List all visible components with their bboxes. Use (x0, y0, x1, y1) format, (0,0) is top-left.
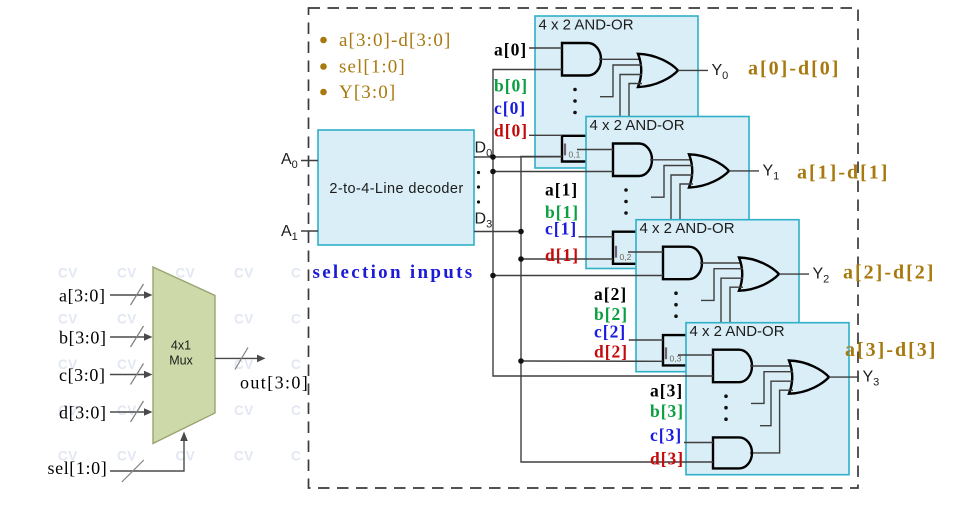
bullet item a[3:0]-d[3:0] (320, 30, 451, 51)
wire a[2] into B3 top AND (628, 251, 663, 253)
junction node D3-B3 (518, 358, 524, 364)
label D3 (475, 211, 493, 231)
svg-text:b[0]: b[0] (494, 76, 528, 96)
junction node D0-B2 (490, 169, 496, 175)
label a[0] (494, 40, 527, 60)
label c[3:0] (59, 365, 106, 385)
label d[0] (494, 121, 528, 141)
wire A1 input (301, 230, 318, 232)
label Y2 (813, 266, 830, 286)
svg-text:C: C (291, 357, 301, 372)
wire OR input stub 2 of B1 (600, 65, 642, 97)
wire Y1 output (729, 170, 759, 172)
svg-text:Y3: Y3 (863, 369, 880, 389)
AND gate top of B2 (613, 144, 652, 177)
wire a[3:0] bus into mux (110, 284, 153, 305)
AND-OR block B2 box (586, 117, 749, 269)
wire b[3:0] bus into mux (110, 326, 153, 347)
label a[3:0] (59, 286, 106, 306)
gate label I0,2 (616, 246, 632, 262)
wire d[0] into B1 bottom AND (529, 134, 562, 136)
svg-text:Y2: Y2 (813, 266, 830, 286)
AND-OR block B1 box (535, 16, 698, 168)
svg-text:a[1]-d[1]: a[1]-d[1] (797, 162, 889, 184)
svg-text:CV: CV (234, 311, 254, 326)
wire bottom AND output of B3 (hidden) (700, 349, 716, 351)
label Y0 (712, 62, 729, 82)
svg-text:0,1: 0,1 (569, 150, 581, 160)
svg-text:CV: CV (58, 266, 78, 281)
OR gate of B2 (689, 154, 729, 187)
OR gate of B4 (789, 361, 829, 394)
svg-text:4 x 2 AND-OR: 4 x 2 AND-OR (539, 17, 634, 34)
svg-text:0,2: 0,2 (620, 252, 632, 262)
label b[0] (494, 76, 528, 96)
svg-text:CV: CV (234, 403, 254, 418)
wire bottom AND output of B2 (hidden) (650, 247, 666, 249)
svg-text:c[0]: c[0] (494, 98, 526, 118)
label a[0]-d[0] (748, 58, 840, 80)
svg-text:CV: CV (234, 357, 254, 372)
gate label I0,3 (666, 347, 682, 363)
svg-text:a[3]: a[3] (650, 381, 683, 401)
svg-text:selection inputs: selection inputs (313, 262, 475, 283)
svg-text:CV: CV (234, 266, 254, 281)
wire Y2 output (779, 273, 809, 275)
hidden-gates ellipsis of B3 (674, 291, 678, 318)
svg-text:sel[1:0]: sel[1:0] (339, 57, 406, 78)
wire d[3:0] bus into mux (110, 401, 153, 422)
AND-OR block B3 box (636, 220, 799, 372)
bullet item Y[3:0] (320, 82, 396, 103)
label a[3] (650, 381, 683, 401)
label A0 (281, 151, 298, 171)
svg-text:CV: CV (58, 311, 78, 326)
label a[2]-d[2] (843, 262, 935, 284)
wire D3 from decoder (474, 231, 521, 233)
junction node D3-B1 (518, 229, 524, 235)
hidden-gates ellipsis of B2 (624, 188, 628, 215)
svg-text:out[3:0]: out[3:0] (240, 373, 309, 393)
wire OR input stub 4 of B2 (680, 184, 693, 222)
svg-text:CV: CV (117, 266, 137, 281)
label b[2] (594, 304, 628, 324)
wire bottom AND output to OR input 4 of B4 (750, 390, 793, 453)
label D0 (475, 140, 493, 160)
bullet item sel[1:0] (320, 57, 406, 78)
junction node D0-B1 (490, 154, 496, 160)
svg-text:4x1: 4x1 (171, 339, 191, 353)
wire top AND output to OR in B3 (700, 262, 742, 264)
svg-text:C: C (291, 266, 301, 281)
svg-text:a[3]-d[3]: a[3]-d[3] (845, 339, 937, 361)
label c[3] (650, 425, 682, 445)
label c[2] (594, 322, 626, 342)
svg-text:CV: CV (234, 449, 254, 464)
svg-text:d[3]: d[3] (650, 449, 684, 469)
label d[1] (545, 245, 579, 265)
gate label I0,1 (565, 144, 581, 160)
svg-text:a[0]: a[0] (494, 40, 527, 60)
wire OR input stub 3 of B3 (721, 278, 743, 325)
wire a[1] into B2 top AND (577, 149, 613, 151)
decoder U1: 2-to-4-Line decoder (318, 130, 474, 245)
svg-text:d[3:0]: d[3:0] (59, 403, 107, 423)
wire c[1] into B2 bottom AND (579, 236, 614, 238)
wire OR input stub 4 of B3 (730, 287, 743, 325)
label selection inputs (313, 262, 475, 283)
svg-text:CV: CV (117, 449, 137, 464)
label a[1]-d[1] (797, 162, 889, 184)
label Y3 (863, 369, 880, 389)
label A1 (281, 223, 298, 243)
wire OR input stub 3 of B2 (671, 175, 693, 222)
label b[3] (650, 401, 684, 421)
OR gate of B3 (739, 258, 779, 291)
label a[3]-d[3] (845, 339, 937, 361)
svg-text:C: C (291, 311, 301, 326)
decoder output ellipsis dots (477, 171, 480, 204)
watermark pattern (58, 266, 301, 464)
AND gate top of B1 (562, 43, 601, 76)
svg-text:CV: CV (176, 449, 196, 464)
svg-text:a[3:0]-d[3:0]: a[3:0]-d[3:0] (339, 30, 451, 51)
svg-text:A1: A1 (281, 223, 298, 243)
wire OR input stub 2 of B4 (751, 372, 793, 404)
svg-text:2-to-4-Line decoder: 2-to-4-Line decoder (329, 181, 463, 197)
wire OR input stub 4 of B1 (629, 84, 642, 119)
wire mux output bus (215, 348, 266, 370)
AND gate bottom of B1 (562, 136, 601, 162)
wire c[3] into B4 bottom AND (684, 442, 713, 444)
label Y1 (763, 163, 780, 183)
junction node D0-B3 (490, 273, 496, 279)
svg-text:4 x 2 AND-OR: 4 x 2 AND-OR (690, 323, 785, 340)
svg-text:c[2]: c[2] (594, 322, 626, 342)
svg-text:A0: A0 (281, 151, 298, 171)
label b[3:0] (59, 328, 107, 348)
label d[2] (594, 342, 628, 362)
label sel[1:0] (48, 458, 108, 478)
svg-text:Y1: Y1 (763, 163, 780, 183)
svg-text:c[1]: c[1] (545, 219, 577, 239)
svg-text:a[1]: a[1] (545, 180, 578, 200)
svg-text:sel[1:0]: sel[1:0] (48, 458, 108, 478)
label a[2] (594, 284, 627, 304)
svg-text:a[2]-d[2]: a[2]-d[2] (843, 262, 935, 284)
svg-text:c[3:0]: c[3:0] (59, 365, 106, 385)
wire a[3] into B4 top AND (678, 354, 713, 356)
svg-text:a[2]: a[2] (594, 284, 627, 304)
label c[1] (545, 219, 577, 239)
svg-text:b[3:0]: b[3:0] (59, 328, 107, 348)
wire Y0 output (678, 69, 708, 71)
svg-text:d[1]: d[1] (545, 245, 579, 265)
wire OR input stub 3 of B1 (620, 75, 642, 119)
wire top AND output to OR in B2 (650, 159, 692, 161)
rail D3 vertical distribution (521, 157, 713, 463)
hidden-gates ellipsis of B1 (573, 88, 577, 115)
wire sel[1:0] into mux select (110, 432, 188, 483)
svg-text:4 x 2 AND-OR: 4 x 2 AND-OR (640, 220, 735, 237)
svg-text:d[2]: d[2] (594, 342, 628, 362)
wire OR input stub 3 of B4 (760, 381, 793, 426)
wire D0 from decoder (474, 156, 562, 158)
label a[1] (545, 180, 578, 200)
label d[3:0] (59, 403, 107, 423)
label out[3:0] (240, 373, 309, 393)
AND gate top of B4 (713, 350, 752, 383)
wire OR input stub 2 of B3 (701, 269, 743, 301)
svg-text:CV: CV (117, 311, 137, 326)
svg-text:D3: D3 (475, 211, 493, 231)
wire bottom AND output of B1 (hidden) (599, 148, 615, 150)
svg-text:c[3]: c[3] (650, 425, 682, 445)
svg-text:C: C (291, 449, 301, 464)
dashed boundary of decoder implementation (309, 8, 859, 488)
svg-text:a[3:0]: a[3:0] (59, 286, 106, 306)
AND gate bottom of B4 (713, 437, 752, 468)
AND-OR block B4 box (686, 323, 849, 475)
AND gate top of B3 (663, 247, 702, 280)
svg-text:a[0]-d[0]: a[0]-d[0] (748, 58, 840, 80)
rail D0 vertical distribution (493, 70, 713, 377)
svg-text:C: C (291, 403, 301, 418)
label d[3] (650, 449, 684, 469)
svg-text:Y[3:0]: Y[3:0] (339, 82, 396, 103)
hidden-gates ellipsis of B4 (724, 394, 728, 421)
wire top AND output to OR in B4 (750, 365, 792, 367)
svg-text:4 x 2 AND-OR: 4 x 2 AND-OR (590, 117, 685, 134)
AND gate bottom of B2 (613, 232, 652, 264)
wire top AND output to OR in B1 (599, 58, 641, 60)
wire Y3 output (829, 376, 859, 378)
svg-text:Mux: Mux (169, 354, 193, 368)
svg-text:b[3]: b[3] (650, 401, 684, 421)
wire a[0] to B1 top AND (529, 47, 562, 49)
OR gate of B1 (638, 54, 678, 87)
svg-text:Y0: Y0 (712, 62, 729, 82)
wire c[3:0] bus into mux (110, 364, 153, 385)
svg-text:CV: CV (117, 357, 137, 372)
wire OR input stub 2 of B2 (651, 166, 693, 198)
junction node D3-B2 (518, 256, 524, 262)
svg-text:d[0]: d[0] (494, 121, 528, 141)
mux M1 body (4x1 Mux trapezoid) (153, 267, 215, 444)
wire c[2] into B3 bottom AND (629, 339, 663, 341)
label c[0] (494, 98, 526, 118)
label b[1] (545, 202, 579, 222)
AND gate bottom of B3 (663, 335, 702, 365)
wire A0 input (301, 160, 318, 162)
